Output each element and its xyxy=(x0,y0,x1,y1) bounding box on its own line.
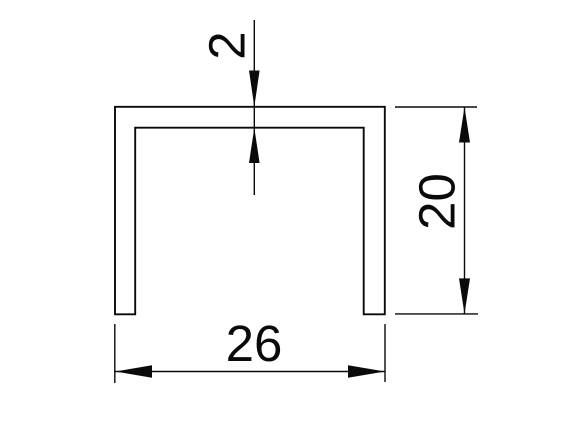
svg-text:26: 26 xyxy=(226,315,283,372)
svg-text:2: 2 xyxy=(199,31,256,59)
svg-text:20: 20 xyxy=(409,173,466,230)
